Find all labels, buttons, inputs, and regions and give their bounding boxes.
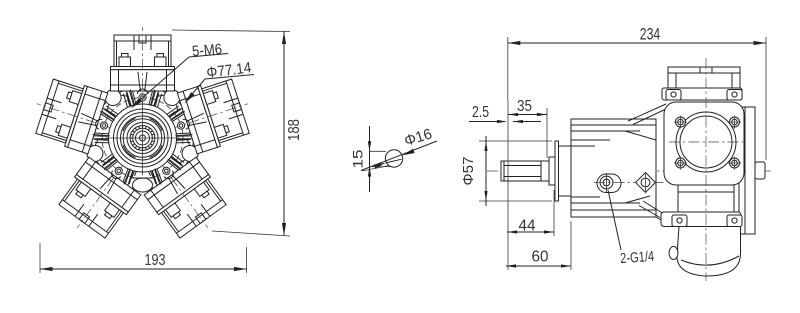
svg-text:35: 35 [517,98,532,115]
svg-text:5-M6: 5-M6 [191,41,222,61]
svg-text:44: 44 [519,218,536,235]
svg-text:188: 188 [286,119,303,141]
svg-text:60: 60 [532,249,549,266]
svg-text:2.5: 2.5 [472,104,489,121]
svg-text:15: 15 [350,149,366,168]
svg-text:Φ57: Φ57 [460,157,477,186]
svg-text:2-G1/4: 2-G1/4 [620,249,655,267]
svg-text:193: 193 [145,252,166,269]
svg-text:234: 234 [640,25,661,44]
